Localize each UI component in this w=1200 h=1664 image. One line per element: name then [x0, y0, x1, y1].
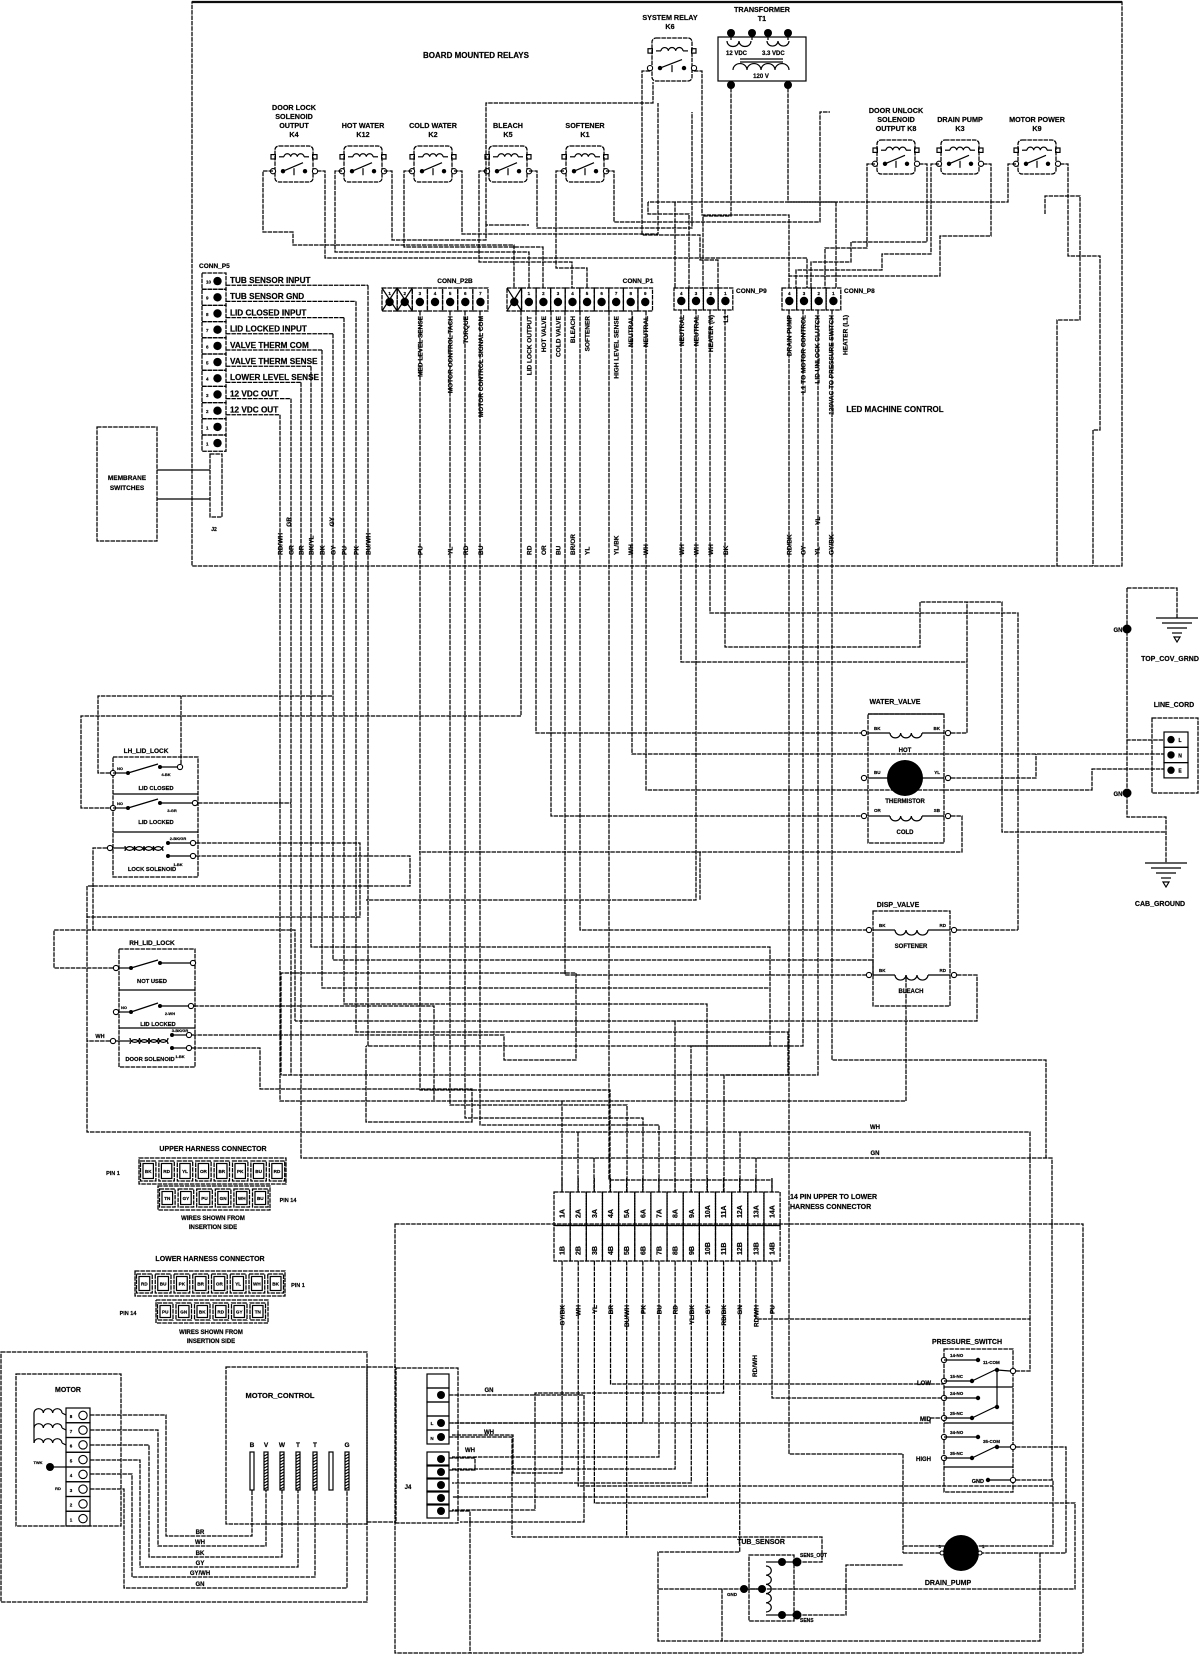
- wire J4 WH2: [449, 1458, 475, 1470]
- wire water valve cold right loop: [419, 816, 962, 852]
- svg-text:5A: 5A: [624, 1209, 631, 1218]
- svg-text:T1: T1: [758, 14, 766, 23]
- svg-text:PRESSURE_SWITCH: PRESSURE_SWITCH: [932, 1339, 1002, 1346]
- wire LH solenoid bottom right: [87, 856, 410, 917]
- wire K12 right: [384, 171, 529, 240]
- svg-text:LID LOCKED INPUT: LID LOCKED INPUT: [230, 325, 307, 334]
- svg-text:GY: GY: [329, 516, 336, 526]
- motor control pin nc: [329, 1452, 333, 1490]
- svg-text:TN: TN: [164, 1196, 171, 1201]
- svg-text:K2: K2: [428, 130, 437, 139]
- svg-text:WH: WH: [465, 1448, 475, 1454]
- svg-text:7B: 7B: [656, 1246, 663, 1255]
- wire RH not used left: [54, 930, 295, 1021]
- svg-text:TUB SENSOR GND: TUB SENSOR GND: [230, 292, 304, 301]
- svg-text:14B: 14B: [770, 1242, 777, 1255]
- LH lid closed switch: [110, 770, 115, 775]
- svg-text:1-BK: 1-BK: [175, 1054, 184, 1059]
- LH lid locked switch: [110, 805, 115, 810]
- svg-text:MOTOR CONTROL TACH: MOTOR CONTROL TACH: [448, 316, 455, 394]
- wire CONN_P5 pin 8 horizontal: [226, 398, 291, 400]
- wire K12 left: [335, 171, 529, 288]
- svg-text:14A: 14A: [770, 1205, 777, 1218]
- svg-text:PK: PK: [640, 1305, 647, 1314]
- svg-text:14 PIN UPPER TO LOWER: 14 PIN UPPER TO LOWER: [790, 1194, 877, 1201]
- svg-text:TUB SENSOR INPUT: TUB SENSOR INPUT: [230, 276, 311, 285]
- LINE_CORD pin N: [1164, 747, 1188, 762]
- connector LINE_CORD box: [1152, 718, 1198, 793]
- motor terminal strip: [66, 1408, 90, 1423]
- svg-text:WH: WH: [576, 1305, 583, 1316]
- svg-text:TUB_SENSOR: TUB_SENSOR: [737, 1539, 785, 1546]
- svg-text:BR: BR: [218, 1169, 225, 1174]
- wire T1 bottom-right down: [788, 88, 836, 288]
- wire softener right loop: [957, 929, 1018, 931]
- svg-text:BU: BU: [478, 545, 485, 555]
- membrane switches box: [97, 427, 157, 541]
- svg-text:8A: 8A: [673, 1209, 680, 1218]
- wire LH solenoid top right: [87, 843, 1030, 1319]
- svg-text:CONN_P8: CONN_P8: [844, 288, 875, 295]
- wire 1B GY/BK: [452, 1261, 562, 1473]
- svg-text:HEATER (L1): HEATER (L1): [843, 315, 850, 355]
- wire LH lid locked right: [198, 802, 291, 804]
- water valve thermistor: [861, 775, 866, 780]
- wire K1 right: [606, 112, 830, 222]
- svg-text:WH: WH: [253, 1282, 261, 1287]
- svg-text:LID LOCKED: LID LOCKED: [138, 820, 173, 826]
- svg-text:OUTPUT K8: OUTPUT K8: [876, 124, 917, 133]
- svg-text:SOLENOID: SOLENOID: [275, 112, 313, 121]
- svg-text:L: L: [1178, 738, 1181, 744]
- svg-text:CONN_P9: CONN_P9: [736, 288, 767, 295]
- svg-text:CONN_P5: CONN_P5: [199, 263, 230, 270]
- svg-text:SB: SB: [934, 808, 941, 813]
- pressure switch MID section: [941, 1395, 946, 1400]
- wire trunk P1-1 RD lid lock: [81, 311, 521, 808]
- svg-text:LH_LID_LOCK: LH_LID_LOCK: [124, 748, 169, 755]
- wire 5B BU/WH: [626, 1261, 628, 1537]
- svg-text:8B: 8B: [673, 1246, 680, 1255]
- svg-text:GY/WH: GY/WH: [190, 1571, 210, 1577]
- wire RH solenoid bottom right: [192, 1046, 472, 1122]
- svg-text:BK: BK: [879, 923, 886, 928]
- wire RH solenoid top right: [192, 973, 576, 1075]
- svg-text:BU/WH: BU/WH: [366, 533, 373, 555]
- svg-text:K6: K6: [665, 22, 674, 31]
- svg-text:V: V: [264, 1442, 269, 1449]
- svg-text:35-NC: 35-NC: [950, 1451, 964, 1456]
- svg-text:DRAIN_PUMP: DRAIN_PUMP: [925, 1580, 972, 1587]
- svg-text:PU: PU: [162, 1310, 169, 1315]
- wire trunk P5-7 BR: [301, 382, 1052, 1480]
- svg-text:SOLENOID: SOLENOID: [877, 115, 915, 124]
- svg-text:12 VDC: 12 VDC: [726, 51, 748, 57]
- svg-text:BR: BR: [196, 1530, 205, 1536]
- wire trunk P9-1 WH: [681, 310, 967, 662]
- wire 6B PK: [452, 1261, 643, 1423]
- svg-text:WH: WH: [238, 1196, 246, 1201]
- component MOTOR_CONTROL box: [226, 1367, 367, 1524]
- svg-text:BU/WH: BU/WH: [624, 1305, 631, 1327]
- svg-text:B: B: [250, 1442, 255, 1449]
- svg-text:J2: J2: [211, 527, 217, 533]
- wire bus heater: [648, 202, 689, 288]
- junction GN dot 1: [1123, 625, 1132, 634]
- svg-text:L: L: [431, 1421, 434, 1426]
- wire K5 right: [529, 112, 692, 228]
- wire trunk P1-2 OR hot valve: [536, 311, 864, 733]
- svg-text:TORQUE: TORQUE: [463, 315, 470, 343]
- svg-text:PIN 14: PIN 14: [280, 1198, 298, 1204]
- wire trunk P2B-7 BU: [480, 311, 659, 1192]
- wire 4B BR: [611, 1261, 944, 1384]
- wire trunk P1-7 YL/BK high level: [609, 311, 772, 1192]
- svg-text:G: G: [344, 1442, 349, 1449]
- svg-text:DOOR SOLENOID: DOOR SOLENOID: [125, 1057, 174, 1063]
- svg-text:11-COM: 11-COM: [983, 1360, 1000, 1365]
- svg-text:GN: GN: [1114, 628, 1123, 634]
- svg-text:BU: BU: [257, 1196, 264, 1201]
- wire LH lid closed left loop: [98, 696, 332, 773]
- wire 14B PU: [772, 1261, 944, 1398]
- wire motor loop GY/WH: [90, 1474, 315, 1577]
- wire RH lid locked right: [194, 1006, 434, 1101]
- wire drain pump feed: [902, 1454, 904, 1553]
- svg-text:GN: GN: [737, 1305, 744, 1315]
- wire water valve hot right loop: [951, 602, 967, 733]
- svg-text:K1: K1: [580, 130, 589, 139]
- wire 1A drop: [561, 1101, 563, 1192]
- svg-text:LOW: LOW: [917, 1381, 931, 1387]
- svg-text:LID LOCK OUTPUT: LID LOCK OUTPUT: [526, 316, 533, 375]
- svg-text:LID CLOSED INPUT: LID CLOSED INPUT: [230, 308, 306, 317]
- wire CONN_P5 pin 5 horizontal: [226, 349, 322, 351]
- svg-text:RD/WH: RD/WH: [753, 1305, 760, 1327]
- svg-text:TN: TN: [255, 1310, 262, 1315]
- svg-text:10: 10: [206, 280, 212, 285]
- svg-text:SENS: SENS: [800, 1618, 814, 1624]
- wire membrane to ribbon 2: [157, 498, 210, 500]
- wire J4 L1 long: [449, 1418, 944, 1423]
- LINE_CORD pin E: [1164, 763, 1188, 778]
- svg-text:RD: RD: [55, 1486, 61, 1491]
- svg-text:GN: GN: [220, 1196, 228, 1201]
- tub sensor coil: [766, 1561, 782, 1563]
- svg-text:WIRES SHOWN FROM: WIRES SHOWN FROM: [179, 1330, 243, 1336]
- svg-text:SOFTENER: SOFTENER: [895, 944, 928, 950]
- svg-text:PU: PU: [342, 546, 349, 555]
- wire trunk P1-9 WH: [646, 311, 1164, 790]
- svg-text:YL: YL: [235, 1282, 241, 1287]
- wire trunk P8-1 RD/BK drain pump: [789, 310, 903, 1454]
- svg-text:BK: BK: [874, 726, 881, 731]
- wire trunk P9-4 L1 BK: [725, 310, 1166, 832]
- svg-text:HIGH: HIGH: [916, 1457, 931, 1463]
- svg-text:WH: WH: [95, 1034, 104, 1040]
- svg-text:CONN_P2B: CONN_P2B: [437, 278, 473, 285]
- wire trunk P2B-5 YL: [450, 311, 627, 1192]
- wire trunk P8-4 GY/BK pressure: [832, 310, 1046, 1158]
- svg-text:BOARD MOUNTED RELAYS: BOARD MOUNTED RELAYS: [423, 51, 530, 60]
- svg-text:COLD VALVE: COLD VALVE: [555, 315, 562, 357]
- wire bleach right loop to 8A: [295, 975, 977, 1021]
- svg-text:HARNESS CONNECTOR: HARNESS CONNECTOR: [790, 1204, 871, 1211]
- svg-text:BR: BR: [299, 545, 306, 555]
- svg-text:GN: GN: [180, 1310, 188, 1315]
- wire membrane to ribbon 1: [157, 469, 210, 471]
- svg-text:MID: MID: [920, 1417, 932, 1423]
- wire J4 GN: [449, 1395, 584, 1522]
- wire trunk P5-8 GR: [290, 399, 292, 1075]
- svg-text:LED MACHINE CONTROL: LED MACHINE CONTROL: [846, 405, 943, 414]
- wire trunk P5-4 GY: [333, 334, 873, 975]
- component DRAIN_PUMP: [943, 1535, 979, 1571]
- svg-text:COLD WATER: COLD WATER: [409, 121, 458, 130]
- wire 8A drop: [674, 1021, 676, 1192]
- wire K3 right down: [789, 164, 991, 288]
- svg-text:BK: BK: [320, 545, 327, 555]
- svg-text:RD: RD: [141, 1282, 148, 1287]
- svg-text:BU: BU: [555, 545, 562, 555]
- svg-text:5B: 5B: [624, 1246, 631, 1255]
- svg-text:WH: WH: [870, 1125, 880, 1131]
- svg-text:L1: L1: [723, 315, 730, 323]
- wire K12 top jumper: [486, 82, 653, 225]
- svg-text:BU: BU: [255, 1169, 262, 1174]
- svg-text:LID LOCKED: LID LOCKED: [140, 1022, 175, 1028]
- svg-text:6A: 6A: [640, 1209, 647, 1218]
- svg-text:OUTPUT: OUTPUT: [279, 121, 309, 130]
- svg-text:BK: BK: [879, 968, 886, 973]
- svg-text:NO: NO: [117, 766, 123, 771]
- disp valve BLEACH coil: [866, 972, 871, 977]
- svg-text:OR: OR: [541, 545, 548, 555]
- svg-text:TOP_COV_GRND: TOP_COV_GRND: [1141, 656, 1199, 663]
- svg-text:2-BK/GR: 2-BK/GR: [170, 836, 187, 841]
- svg-text:GY: GY: [236, 1310, 243, 1315]
- svg-text:LID CLOSED: LID CLOSED: [138, 786, 173, 792]
- wire trunk P5-9 RD/WH: [280, 415, 906, 1101]
- svg-text:RD: RD: [463, 545, 470, 555]
- wire A-row stubs: [561, 1178, 563, 1192]
- svg-text:SOFTENER: SOFTENER: [585, 316, 592, 352]
- wire motor loop BK: [90, 1445, 282, 1557]
- svg-text:4-BK: 4-BK: [161, 772, 170, 777]
- svg-text:HOT: HOT: [899, 748, 912, 754]
- wire trunk P5-3 PU: [344, 318, 707, 1192]
- svg-text:12 VDC OUT: 12 VDC OUT: [230, 389, 278, 398]
- wire CONN_P5 pin 2 horizontal: [226, 300, 356, 302]
- wire water valve therm right: [951, 754, 1036, 778]
- svg-text:K3: K3: [955, 124, 964, 133]
- wire cold loop drop: [699, 852, 701, 900]
- svg-text:MOTOR: MOTOR: [55, 1387, 81, 1394]
- wire CONN_P5 pin 1 horizontal: [226, 284, 368, 286]
- svg-text:PK: PK: [179, 1282, 186, 1287]
- wire trunk P5-5 BK: [322, 350, 770, 1192]
- wire trunk P9-2 WH: [366, 310, 696, 900]
- svg-text:RD/BK: RD/BK: [721, 1305, 728, 1326]
- wire trunk P5-2 PK: [356, 301, 788, 1192]
- svg-text:K9: K9: [1032, 124, 1041, 133]
- svg-text:PK: PK: [354, 546, 361, 555]
- svg-text:3A: 3A: [592, 1209, 599, 1218]
- svg-text:GY: GY: [183, 1196, 190, 1201]
- svg-text:BK: BK: [723, 545, 730, 555]
- svg-text:BR/OR: BR/OR: [570, 534, 577, 555]
- svg-text:MED LEVEL SENSE: MED LEVEL SENSE: [417, 315, 424, 377]
- svg-text:WH: WH: [708, 544, 715, 555]
- svg-text:3B: 3B: [592, 1246, 599, 1255]
- svg-text:3-GR: 3-GR: [167, 808, 177, 813]
- wire trunk P1-4 BR/OR bleach: [565, 311, 869, 975]
- svg-text:SWITCHES: SWITCHES: [110, 485, 145, 492]
- wire trunk P5-6 BK/YL: [311, 366, 770, 988]
- wire 3B YL: [594, 1261, 1075, 1589]
- svg-text:11B: 11B: [721, 1243, 728, 1255]
- wire lower right box top link: [367, 1366, 396, 1368]
- wire K5 left: [479, 171, 572, 288]
- svg-text:LOWER HARNESS CONNECTOR: LOWER HARNESS CONNECTOR: [155, 1256, 264, 1263]
- pressure switch HIGH section: [941, 1434, 946, 1439]
- svg-text:LINE_CORD: LINE_CORD: [1154, 702, 1194, 709]
- wire bottom loop: [722, 1553, 1040, 1641]
- LINE_CORD pin L: [1164, 732, 1188, 747]
- svg-text:BK: BK: [145, 1169, 152, 1174]
- svg-text:14-NO: 14-NO: [950, 1353, 964, 1358]
- svg-text:BK: BK: [196, 1551, 205, 1557]
- svg-text:HIGH LEVEL SENSE: HIGH LEVEL SENSE: [614, 315, 621, 378]
- svg-text:BU: BU: [656, 1305, 663, 1315]
- svg-text:MOTOR POWER: MOTOR POWER: [1009, 115, 1066, 124]
- svg-text:NOT USED: NOT USED: [137, 979, 167, 985]
- junction GN dot 2: [1123, 789, 1132, 798]
- wire trunk P8-2 GY motor L1: [366, 310, 803, 1046]
- wire CONN_P5 pin 3 horizontal: [226, 317, 344, 319]
- svg-text:INSERTION SIDE: INSERTION SIDE: [187, 1339, 235, 1345]
- wire top cover ground loop: [1127, 588, 1177, 618]
- svg-text:WH: WH: [195, 1540, 205, 1546]
- svg-text:BR: BR: [197, 1282, 204, 1287]
- svg-text:N: N: [430, 1436, 433, 1441]
- wire trunk P8-3 YL lid unlock: [281, 310, 818, 1075]
- wire 9B YL/BK: [452, 1261, 691, 1483]
- svg-text:BU: BU: [160, 1282, 167, 1287]
- svg-text:GN: GN: [485, 1388, 494, 1394]
- svg-text:MEMBRANE: MEMBRANE: [108, 475, 147, 482]
- wire CONN_P5 pin 4 horizontal: [226, 333, 333, 335]
- svg-text:BK: BK: [272, 1282, 279, 1287]
- svg-text:12 VDC OUT: 12 VDC OUT: [230, 406, 278, 415]
- svg-text:GN: GN: [196, 1582, 205, 1588]
- wire pressure GND right down: [903, 1480, 1053, 1546]
- svg-text:PIN 14: PIN 14: [120, 1311, 138, 1317]
- svg-text:PU: PU: [201, 1196, 208, 1201]
- wire K8 left down: [825, 164, 875, 288]
- wire K9 right down: [1060, 164, 1100, 430]
- svg-text:BR: BR: [608, 1305, 615, 1315]
- wire GN vertical right: [1127, 588, 1164, 740]
- svg-text:12B: 12B: [737, 1242, 744, 1255]
- wire J4 pin down: [449, 1511, 470, 1653]
- wire RH solenoid left WH: [87, 1040, 110, 1042]
- wire 8B RD: [452, 1261, 675, 1469]
- svg-text:CONN_P1: CONN_P1: [623, 278, 654, 285]
- wire CONN_P5 pin 6 horizontal: [226, 365, 311, 367]
- svg-text:6B: 6B: [640, 1246, 647, 1255]
- svg-text:NEUTRAL: NEUTRAL: [679, 315, 686, 346]
- wire tub sensor sens_out: [512, 1537, 822, 1562]
- svg-text:WH: WH: [484, 1430, 494, 1436]
- svg-text:GN: GN: [1114, 792, 1123, 798]
- svg-text:LOWER LEVEL SENSE: LOWER LEVEL SENSE: [230, 373, 320, 382]
- svg-text:W: W: [279, 1442, 286, 1449]
- wire CONN_P5 pin 7 horizontal: [226, 381, 301, 383]
- svg-text:GY: GY: [196, 1561, 205, 1567]
- motor thermal switch: [46, 1463, 54, 1471]
- svg-text:THERMISTOR: THERMISTOR: [885, 799, 925, 805]
- wire K3 left down: [796, 164, 939, 288]
- wire motor loop WH: [90, 1430, 266, 1546]
- svg-text:GY/BK: GY/BK: [560, 1305, 567, 1326]
- svg-text:BU: BU: [874, 770, 881, 775]
- svg-text:DRAIN PUMP: DRAIN PUMP: [937, 115, 983, 124]
- svg-text:BK: BK: [934, 726, 941, 731]
- svg-text:COLD: COLD: [897, 830, 915, 836]
- wire motor loop BR: [90, 1415, 252, 1536]
- svg-text:11A: 11A: [721, 1206, 728, 1218]
- wire K6 right down: [694, 71, 789, 276]
- ground CAB_GROUND: [1145, 862, 1187, 864]
- wire motor loop GY: [90, 1460, 298, 1567]
- lower right enclosure box: [395, 1224, 1083, 1653]
- svg-text:WIRES SHOWN FROM: WIRES SHOWN FROM: [181, 1216, 245, 1222]
- connector 14 PIN UPPER TO LOWER: [554, 1192, 570, 1226]
- svg-text:PIN 1: PIN 1: [106, 1171, 120, 1177]
- svg-text:MOTOR CONTROL SIGNAL COM: MOTOR CONTROL SIGNAL COM: [478, 316, 485, 417]
- svg-text:RD: RD: [274, 1169, 281, 1174]
- wire pressure HIGH com to drain pump: [982, 1447, 1066, 1553]
- svg-text:TRANSFORMER: TRANSFORMER: [734, 5, 791, 14]
- svg-text:INSERTION SIDE: INSERTION SIDE: [189, 1225, 237, 1231]
- svg-text:RD: RD: [526, 545, 533, 555]
- svg-text:MOTOR_CONTROL: MOTOR_CONTROL: [245, 1391, 314, 1400]
- LED machine control board outline: [192, 2, 1122, 566]
- svg-text:34-NO: 34-NO: [950, 1430, 964, 1435]
- svg-text:T: T: [296, 1442, 300, 1449]
- svg-text:PIN 1: PIN 1: [291, 1283, 305, 1289]
- wire trunk P1-3 BU cold valve: [551, 311, 864, 816]
- svg-text:OR: OR: [200, 1169, 208, 1174]
- svg-text:GR: GR: [286, 517, 293, 527]
- wire LH solenoid left: [93, 848, 107, 930]
- wire 13B RD/WH: [756, 1261, 1030, 1371]
- wire K4 right down: [317, 171, 807, 288]
- wire K6 left down: [642, 71, 718, 288]
- disp valve SOFTENER coil: [866, 927, 871, 932]
- svg-text:9B: 9B: [689, 1246, 696, 1255]
- svg-text:SYSTEM RELAY: SYSTEM RELAY: [642, 13, 697, 22]
- wire motor loop GN: [90, 1489, 347, 1588]
- lower left enclosure box: [1, 1352, 367, 1602]
- RH door solenoid coil: [110, 1038, 115, 1043]
- svg-text:3.3 VDC: 3.3 VDC: [762, 51, 785, 57]
- svg-text:PU: PU: [417, 546, 424, 555]
- wire K8 right down: [811, 164, 927, 288]
- svg-text:SOFTENER: SOFTENER: [565, 121, 605, 130]
- svg-text:CAB_GROUND: CAB_GROUND: [1135, 901, 1185, 908]
